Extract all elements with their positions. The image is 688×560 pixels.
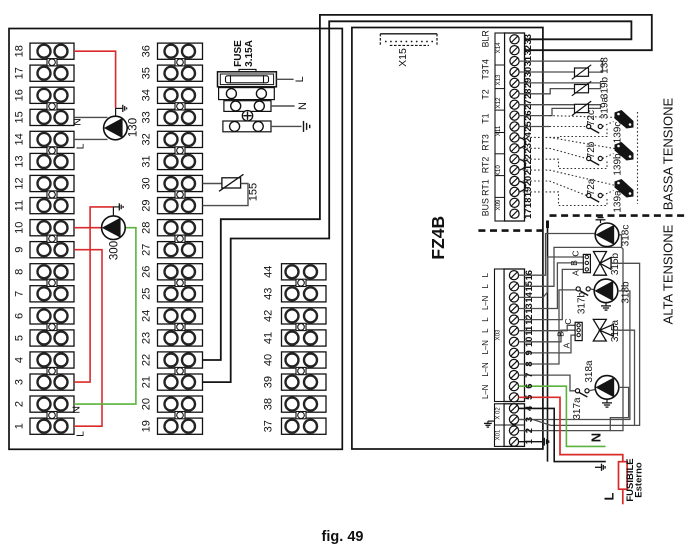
terminal block pair B 23/24 [158,308,203,324]
jumper link screws 21-22 [519,159,526,170]
svg-text:10: 10 [14,222,26,234]
sensor 319a (thermistor) [575,104,589,112]
left enclosure box [9,29,342,450]
svg-text:23: 23 [141,332,153,344]
wire sensor 155 to terminal 29 [203,184,249,206]
dotted wiring for switch 72a [550,181,587,196]
wire switch 317b to pump 318b [590,289,594,290]
wire L terminal 18 to pump 130 earth (red) [74,51,116,108]
wire screw 6 neutral (green) [519,386,606,446]
svg-text:11: 11 [524,326,534,336]
upper screw strip body X09-X14 [505,33,525,221]
divider dashed line (left, alta/bassa) [478,229,542,232]
svg-text:3: 3 [14,379,26,385]
wire L terminal 14 to pump 130 [74,138,108,140]
svg-text:X10: X10 [495,165,502,177]
wire screw 10 to valve 315a B [519,330,576,342]
stub wire screw 25 [519,126,550,128]
screw terminal 31 [510,57,519,66]
svg-text:9: 9 [14,247,26,253]
svg-text:25: 25 [523,121,533,131]
svg-text:17: 17 [523,209,533,219]
wire screw 3 to valve 315b return [519,263,640,425]
terminal block pair C 37/38 [282,396,327,412]
stub wire screw 21 (dotted) [519,169,550,171]
svg-text:6: 6 [14,313,26,319]
svg-text:130: 130 [128,118,140,137]
sensor 155 (thermistor) [222,178,241,188]
wire terminal 21 to screw 33 (BLR) [203,21,632,382]
screw terminal 23 [510,144,519,153]
wire N terminal 15 to pump 130 [74,116,108,118]
screw terminal 20 [510,176,519,185]
screw terminal 2 (low) [509,426,518,435]
valve 315b (3-way) [583,254,590,272]
earth symbol at X02 [488,420,495,422]
svg-text:5: 5 [14,335,26,341]
screw terminal 7 (low) [509,371,518,380]
wire screw 29 to sensor 319b [519,83,601,89]
screw terminal 9 (low) [509,348,518,357]
svg-text:7: 7 [14,291,26,297]
svg-text:16: 16 [524,270,534,280]
dotted wiring for switch 72c [550,126,587,128]
screw terminal 21 [510,166,519,175]
pump 300 [102,216,126,240]
svg-text:318c: 318c [621,225,632,247]
screw terminal 33 [510,35,519,44]
svg-text:L–N: L–N [481,340,490,354]
svg-text:18: 18 [523,198,533,208]
FZ4B board outline [352,28,543,450]
wire screw 30 to sensor 138 [519,71,575,73]
svg-text:21: 21 [523,165,533,175]
svg-text:14: 14 [14,133,26,145]
svg-text:31: 31 [141,155,153,167]
svg-text:12: 12 [524,314,534,324]
svg-text:44: 44 [263,266,275,278]
svg-text:13: 13 [524,303,534,313]
svg-text:32: 32 [523,45,533,55]
svg-text:FZ4B: FZ4B [428,216,448,260]
terminal block pair C 41/42 [282,308,327,324]
screw terminal 27 [510,100,519,109]
svg-text:X14: X14 [495,42,502,54]
svg-text:29: 29 [523,78,533,88]
svg-text:20: 20 [523,176,533,186]
jumper link screws 23-24 [519,137,526,148]
svg-text:10: 10 [524,337,534,347]
svg-text:A: A [562,342,572,348]
svg-text:15: 15 [14,111,26,123]
switch 72a [587,193,591,197]
terminal block pair B 21/22 [158,352,203,368]
svg-text:39: 39 [263,376,275,388]
svg-text:6: 6 [524,384,534,389]
svg-text:36: 36 [141,45,153,57]
stub wire screw 20 (dotted) [519,180,550,182]
pump 318c [595,223,619,247]
wire terminal 3 to pump 300 earth (red) [74,207,113,382]
pump 130 [104,116,128,140]
dotted wiring for switch 72b [550,148,587,158]
svg-text:42: 42 [263,310,275,322]
terminal block pair A 9/10 [30,220,74,236]
lower screw strip body X03 [504,269,525,402]
svg-text:5: 5 [524,395,534,400]
wire terminal 9 to terminal 1 (red) [74,250,102,427]
svg-text:L: L [481,317,490,322]
svg-text:30: 30 [523,67,533,77]
svg-text:22: 22 [141,354,153,366]
terminal block pair A 7/8 [30,264,74,280]
svg-text:L: L [602,492,617,500]
screw terminal 30 [510,67,519,76]
svg-text:33: 33 [523,34,533,44]
svg-text:38: 38 [263,398,275,410]
screw terminal 29 [510,78,519,87]
svg-text:72c: 72c [586,110,597,126]
svg-text:19: 19 [523,187,533,197]
svg-text:N: N [72,118,84,126]
svg-text:X 02: X 02 [495,407,501,420]
connector X15 [380,33,437,35]
svg-text:72b: 72b [586,141,597,158]
svg-text:139b: 139b [613,153,624,176]
svg-text:318a: 318a [584,360,595,383]
connector section column X09..X14 [495,33,505,221]
terminal block pair B 25/26 [158,264,203,280]
wire fuse PE stub [271,125,302,127]
svg-text:L: L [481,272,490,277]
pump 318a [595,376,619,400]
svg-text:11: 11 [14,200,26,211]
svg-text:FUSE: FUSE [233,40,244,67]
switch 72c [587,124,591,128]
svg-text:3: 3 [524,417,534,422]
wire screw 28 to sensor 319b [519,89,575,94]
earth symbol (mains PE) [595,466,601,468]
svg-text:X15: X15 [397,48,409,67]
screw terminal 15 (low) [509,282,518,291]
terminal block pair A 17/18 [30,43,74,59]
valve 315a (3-way) [575,322,582,340]
screw terminal 10 (low) [509,337,518,346]
screw terminal 25 [510,122,519,131]
wire screw 31 to sensor 138 [519,61,603,72]
svg-text:13: 13 [14,155,26,167]
divider dashed line (right, alta/bassa) [550,214,687,217]
stub wire screw 19 (dotted) [519,191,550,193]
terminal block pair A 3/4 [30,352,74,368]
stub wire screw 23 (dotted) [519,147,550,149]
svg-text:319b: 319b [600,76,611,99]
svg-text:Esterno: Esterno [634,462,645,498]
svg-text:28: 28 [141,222,153,234]
svg-text:B: B [569,260,579,266]
svg-text:2: 2 [524,428,534,433]
svg-text:24: 24 [141,310,153,322]
sensor 319b (thermistor) [575,85,589,93]
wire valve 315a return [613,330,634,425]
svg-text:4: 4 [14,357,26,363]
svg-text:34: 34 [141,89,153,101]
svg-text:BUS: BUS [480,198,490,216]
earth bus wire [547,222,549,462]
svg-text:22: 22 [523,154,533,164]
X02/X01 strip body [504,404,525,447]
svg-text:X03: X03 [494,329,501,341]
screw terminal 14 (low) [509,293,518,302]
wire fuse L stub [276,78,293,80]
switch 72b [587,156,591,160]
connector 139a [615,179,634,198]
fuse terminal row PE [223,121,271,132]
terminal block pair A 1/2 [30,396,74,412]
svg-text:138: 138 [600,57,611,74]
svg-text:18: 18 [14,45,26,57]
svg-text:L–N: L–N [481,385,490,399]
wire screw 8 to switch 317b [519,290,577,364]
screw terminal 26 [510,111,519,120]
screw terminal 24 [510,133,519,142]
earth symbol at pump 130 [116,107,123,109]
fuse terminal row L [219,88,275,100]
svg-text:27: 27 [523,100,533,110]
svg-text:317a: 317a [572,397,583,420]
terminal block pair C 39/40 [282,352,327,368]
svg-text:14: 14 [524,291,534,302]
svg-text:24: 24 [523,131,533,142]
wire pump 300 to terminal 2 (green) [74,228,136,404]
svg-text:RT1: RT1 [480,179,490,196]
terminal block pair B 35/36 [158,43,203,59]
svg-text:26: 26 [523,110,533,120]
wire screw 16 to pump 318c [519,234,596,276]
screw terminal 8 (low) [509,359,518,368]
svg-text:300: 300 [109,241,121,260]
screw terminal 6 (low) [509,382,518,391]
switch 317b [576,287,580,291]
wire screw 26 to sensor 319a [519,108,575,115]
screw terminal 4 (low) [509,404,518,413]
terminal block pair A 11/12 [30,175,74,191]
wire pump 318b return to screw 3 [519,291,630,420]
screw terminal 28 [510,89,519,98]
svg-text:T3T4: T3T4 [480,59,490,80]
screw terminal 19 [510,187,519,196]
connector 139b [615,142,634,161]
svg-text:139c: 139c [613,122,624,144]
svg-text:15: 15 [524,281,534,291]
svg-text:26: 26 [141,266,153,278]
svg-text:37: 37 [263,420,275,432]
svg-text:9: 9 [524,350,534,355]
svg-text:ALTA TENSIONE: ALTA TENSIONE [661,224,676,324]
svg-text:2: 2 [14,401,26,407]
svg-text:17: 17 [14,67,26,79]
svg-text:139a: 139a [613,190,624,213]
terminal block pair A 15/16 [30,87,74,103]
wire switch 317a to pump 318a [589,389,595,390]
svg-text:X09: X09 [495,199,502,211]
svg-text:A: A [571,270,581,276]
stub wire screw 22 (dotted) [519,158,550,160]
earth symbol (screw 1) [543,438,545,446]
svg-text:L: L [75,431,87,437]
wire screw 7 to switch 317a [519,375,576,391]
svg-text:L: L [481,283,490,288]
screw terminal 5 (low) [509,393,518,402]
terminal block pair B 31/32 [158,131,203,147]
screw terminal 12 (low) [509,315,518,324]
svg-text:20: 20 [141,398,153,410]
svg-text:35: 35 [141,67,153,79]
wire 318c return branch to screw 2 [610,247,623,430]
svg-text:1: 1 [14,423,26,429]
svg-text:8: 8 [524,361,534,366]
svg-text:32: 32 [141,133,153,145]
svg-text:RT2: RT2 [480,157,490,174]
svg-text:40: 40 [263,354,275,366]
fuse FUSIBILE Esterno [619,462,628,490]
svg-text:fig. 49: fig. 49 [322,529,364,545]
svg-text:27: 27 [141,244,153,256]
svg-text:N: N [71,406,83,414]
svg-text:33: 33 [141,111,153,123]
earth symbol (fuse PE) [303,121,305,132]
svg-text:B: B [556,331,566,337]
screw terminal 13 (low) [509,304,518,313]
svg-text:L: L [294,76,306,82]
svg-text:X12: X12 [495,97,502,109]
wire terminal 30 to sensor 155 [203,183,222,185]
svg-text:C: C [571,250,581,256]
terminal block pair B 27/28 [158,220,203,236]
svg-text:X01: X01 [495,429,501,440]
svg-text:30: 30 [141,177,153,189]
connector column X02/X01 [495,404,505,447]
svg-text:BASSA TENSIONE: BASSA TENSIONE [661,97,676,210]
dotted bus line (139a-139c) [637,112,639,204]
earth symbol at pump 318a [606,399,608,403]
svg-text:16: 16 [14,89,26,101]
fuse terminal row N [224,101,271,112]
screw terminal 22 [510,155,519,164]
screw terminal 16 (low) [509,271,518,280]
svg-text:1: 1 [524,439,534,444]
wire screw 11 to valve 315a C [519,325,576,330]
screw terminal 3 (low) [509,415,518,424]
wire screw 13 to valve 315b B [519,263,584,309]
screw terminal 32 [510,46,519,55]
svg-text:7: 7 [524,373,534,378]
jumper link screws 19-20 [519,181,526,192]
svg-text:8: 8 [14,269,26,275]
fuse mounting screw [242,111,252,121]
terminal block pair B 19/20 [158,396,203,412]
svg-text:29: 29 [141,199,153,211]
svg-text:23: 23 [523,143,533,153]
pump 318b [594,279,618,303]
wire screw 1 to earth [519,441,544,443]
svg-text:L: L [75,143,87,149]
svg-text:319a: 319a [600,96,611,119]
svg-text:43: 43 [263,288,275,300]
svg-text:25: 25 [141,288,153,300]
earth symbol at pump 318c [600,220,602,223]
wire terminal 10 to pump 300 (red) [74,227,102,229]
wire screw 5 line (red) [519,397,623,461]
svg-text:4: 4 [524,405,534,411]
wire below external fuse (red) [622,489,624,504]
wire terminal 22 to screw 32 (BLR) [203,15,652,360]
svg-text:N: N [297,102,309,110]
wire screw 14 to valve 315b C [519,257,584,297]
screw terminal 11 (low) [509,326,518,335]
svg-text:12: 12 [14,177,26,189]
terminal block pair A 13/14 [30,131,74,147]
wire screw 4 to earth [519,408,606,461]
svg-text:317b: 317b [577,291,588,314]
wire fuse N stub [271,105,295,107]
svg-text:28: 28 [523,89,533,99]
svg-text:72a: 72a [586,178,597,195]
svg-text:T1: T1 [480,113,490,123]
terminal block pair B 29/30 [158,175,203,191]
terminal block pair A 5/6 [30,308,74,324]
svg-text:X11: X11 [495,125,502,136]
connector column X03 [495,269,505,402]
svg-text:L–N: L–N [481,296,490,310]
svg-text:N: N [589,433,604,442]
svg-text:19: 19 [141,420,153,432]
wire pump 318a return to screw 2 [519,387,629,430]
connector 139c [615,110,634,129]
svg-text:L: L [481,328,490,333]
svg-text:C: C [563,318,573,324]
terminal block pair C 43/44 [282,264,327,280]
screw terminal 17 [510,209,519,218]
svg-text:L–N: L–N [481,362,490,376]
svg-text:X13: X13 [495,74,502,86]
wire screw 9 to valve 315a A [519,335,576,353]
screw terminal 1 (low) [509,437,518,446]
svg-text:T2: T2 [480,89,490,99]
svg-text:155: 155 [248,183,260,201]
terminal block pair B 33/34 [158,87,203,103]
svg-text:31: 31 [523,56,533,66]
svg-text:21: 21 [141,376,153,388]
svg-text:41: 41 [263,332,275,344]
wire screw 12 to valve 315b A [519,269,584,319]
wire screw 15 to pump 318c return [519,235,622,286]
earth symbol at pump 318b [605,303,607,306]
earth symbol at pump 300 [113,206,119,208]
fuse holder F1 3.15A [239,69,256,72]
svg-text:3.15A: 3.15A [244,40,255,67]
switch 317a [575,389,579,393]
svg-text:BLR: BLR [480,30,490,47]
stub wire screw 24 (dotted) [519,136,550,138]
wire screw 27 to sensor 319a [519,105,601,109]
screw terminal 18 [510,198,519,207]
svg-text:RT3: RT3 [480,134,490,151]
sensor 138 (thermistor) [575,68,589,76]
